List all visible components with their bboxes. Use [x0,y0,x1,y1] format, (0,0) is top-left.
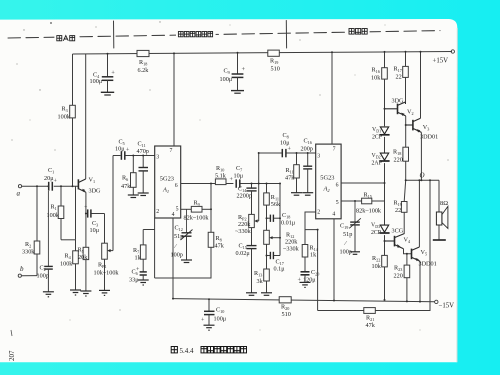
wire: junction link C8 wire to main wire to RP2 wiper [258,153,260,221]
svg-text:100p: 100p [37,273,49,280]
svg-text:82k~100k: 82k~100k [356,208,382,215]
svg-text:+: + [111,70,115,77]
svg-text:0.1μ: 0.1μ [274,266,286,273]
svg-text:100k: 100k [58,114,71,121]
svg-text:20k: 20k [78,254,88,261]
wire: A1 pin7 supply from rail [173,53,175,146]
wire: V2 collector up to R17 [404,102,406,104]
svg-text:3DD01: 3DD01 [420,134,438,141]
resistor R19b 22 below O [394,180,408,234]
label V3 3DD01 [420,124,438,141]
transistor V3 3DD01 power [406,118,422,132]
svg-text:1k: 1k [135,255,142,262]
resistor R6 47k to ground [121,156,136,195]
wire: A2 pin2 wire [305,212,316,245]
svg-text:6.2k: 6.2k [138,67,150,74]
svg-text:+15V: +15V [433,58,449,65]
ground under C6 [138,280,149,285]
wire: V1 collector to rail [85,54,87,179]
ground under C10 [204,325,215,330]
label V2 3DG [392,98,414,116]
wire: A1 pin4 down to -15V bus [172,218,174,299]
resistor R5 20k emitter to ground [78,247,89,291]
svg-text:3: 3 [156,155,159,161]
svg-text:51p: 51p [174,233,183,240]
wire: V5 bottom to -15V bus [419,261,421,301]
svg-text:2: 2 [156,209,159,215]
transistor V2 3DG driver [385,102,406,116]
wire: V5 top to O node [418,180,420,247]
wire: bias chain column segments [384,52,386,300]
svg-text:22: 22 [395,207,401,214]
svg-text:100μ: 100μ [214,316,227,323]
resistor R4 100k base column to ground [60,240,78,290]
svg-text:33μ: 33μ [129,277,139,284]
wire: V3 emitter to O node [420,132,422,180]
svg-text:7: 7 [170,148,173,154]
terminal b [18,265,37,277]
svg-text:510: 510 [282,311,291,318]
ground under R11b [291,193,302,196]
capacitor C6 33u [129,267,147,284]
wire: V1 base column [75,186,77,240]
svg-text:6: 6 [175,183,178,189]
capacitor C1 20u coupling [44,167,58,191]
resistor R14 1k [302,245,319,272]
wire: V3 collector to rail [420,52,422,119]
svg-text:VD1: VD1 [372,127,381,133]
svg-text:220: 220 [394,157,403,164]
svg-text:7: 7 [333,146,336,152]
label V1 3DG [89,177,102,195]
svg-text:56k: 56k [271,201,281,208]
svg-text:100p: 100p [171,252,183,259]
speaker 8 ohm [436,180,448,239]
svg-text:207: 207 [8,350,16,361]
ground under R5 [80,291,91,296]
svg-text:100k: 100k [47,212,60,219]
svg-text:3DG: 3DG [89,188,102,195]
svg-text:5.1k: 5.1k [215,172,227,179]
wire: V1 emitter column [85,192,87,247]
transistor V4 3CG driver [385,234,405,249]
ground under R6 [128,195,139,198]
ground under C20 [300,282,311,287]
capacitor C2 100p [37,191,53,292]
svg-text:4: 4 [172,212,175,218]
wire: A2 pin5 wire [341,200,362,202]
resistor R13 3k to ground [254,256,269,293]
svg-text:O: O [420,172,425,180]
label 音调控制电路 (tone control circuit) [178,32,212,37]
svg-text:51p: 51p [343,231,352,238]
svg-text:10k~100k: 10k~100k [94,270,120,277]
wire: C8 input wire of A2 [259,152,282,154]
label 音调控制电路 white backing [176,29,216,39]
ground under R13 [261,293,272,296]
svg-text:220k: 220k [285,239,298,246]
svg-text:b: b [20,265,24,273]
svg-text:100k: 100k [60,261,73,268]
svg-text:5: 5 [336,200,339,206]
resistor R22 10k lower chain [372,255,388,270]
svg-text:220: 220 [394,273,403,280]
svg-text:2CP: 2CP [371,230,381,236]
ground under speaker [433,239,446,241]
scan speckle noise [11,21,448,330]
svg-text:10μ: 10μ [280,140,290,147]
svg-text:220k: 220k [238,221,251,228]
svg-text:6: 6 [336,183,339,189]
svg-text:47k: 47k [366,322,376,329]
wire: A2 pin6 output [341,182,384,184]
resistor R8 47k [208,209,224,249]
svg-text:5G23: 5G23 [320,175,334,182]
svg-text:−15V: −15V [439,303,455,310]
capacitor C15 0.02u [236,228,257,293]
ground under C11 [138,193,149,196]
svg-text:5G23: 5G23 [160,176,174,183]
svg-text:VD2: VD2 [372,153,381,159]
diode VD3 2CP [371,223,390,237]
ground bar under C19 [350,252,360,255]
wire: V4 emitter to V5 base [404,249,412,254]
ground under C16 [302,193,313,196]
resistor R10 5.1k series [215,165,233,185]
svg-text:2200p: 2200p [237,193,252,200]
svg-text:3CG: 3CG [392,228,404,235]
+15V supply terminal [433,50,455,65]
svg-text:+: + [242,66,246,73]
label 输入级 white backing [54,33,77,43]
svg-text:10k: 10k [371,75,381,82]
svg-text:22: 22 [396,74,402,81]
capacitor C14 2200p branch [237,184,257,215]
ground under C12 [181,260,192,263]
op-amp A2 5G23 [316,144,341,219]
capacitor C12 51p~100p variable [171,209,193,259]
svg-text:47k: 47k [215,243,225,250]
diode VD2 2AP [372,153,390,167]
page right edge shade [456,28,458,362]
node O output [406,172,439,181]
svg-text:3: 3 [317,154,320,160]
diode VD1 2CP [372,127,390,141]
resistor R7 1k [133,230,146,272]
svg-text:0.02μ: 0.02μ [236,250,251,257]
wire: RP1 wiper up to C5 [112,156,114,251]
svg-text:47k: 47k [285,175,295,182]
ground under R4 [70,290,81,295]
potentiometer RP1 10k~100k [94,214,120,291]
wire: treble network vertical link [279,184,281,256]
capacitor C18 0.01u branch [267,212,296,227]
capacitor C3 10u emitter coupling [84,205,105,234]
svg-text:VD3: VD3 [371,223,380,229]
wire: A2 pin7 supply from rail [331,52,333,144]
svg-text:5: 5 [176,207,179,213]
label 输出级 (output stage) [349,29,367,35]
resistor R21 47k feedback [364,308,376,329]
svg-text:~330k: ~330k [283,246,300,253]
svg-text:100μ: 100μ [90,78,103,85]
wire: input a to V1 base [22,185,79,187]
capacitor C9 100u rail filter [220,53,246,93]
resistor R18 6.2k on top rail [137,50,149,74]
svg-text:~330k: ~330k [235,228,252,235]
stage boundary dashed line [8,31,440,38]
potentiometer R12 220k~330k [264,230,300,252]
resistor R16 10k [371,67,387,82]
wire: C5 to A1 pin 3 [125,155,154,157]
svg-text:0.01μ: 0.01μ [281,220,296,227]
resistor R3 100k bias from rail [58,54,76,186]
figure caption 图5.4.4 扩音机电原理图 [171,347,246,355]
ground under C2 [43,292,54,297]
label V4 3CG [392,228,411,244]
svg-text:2: 2 [317,210,320,216]
wire: A1 pin5 wire [181,208,192,210]
svg-text:510: 510 [271,66,280,73]
svg-text:8Ω: 8Ω [440,200,448,207]
wire: A1 pin6 output wire [181,183,216,185]
label V5 3DD01 [419,249,437,268]
capacitor C4 100u rail filter [90,54,116,95]
capacitor C17 0.1u branch [267,244,286,272]
capacitor C19 51p~100p variable [340,201,361,256]
svg-text:330k: 330k [22,249,35,256]
capacitor C7 10u series [230,165,281,188]
svg-text:470p: 470p [137,148,149,155]
svg-text:10μ: 10μ [90,227,100,234]
op-amp A1 5G23 [155,146,181,218]
resistor R9 82k~100k feedback [184,184,212,222]
resistor R18b 220 [393,147,409,180]
ground under C15 [246,293,257,296]
resistor R11 56k branch [264,184,281,231]
wire: +15V top rail [73,52,453,55]
capacitor C5 10u into A1 [113,139,130,160]
svg-text:5.4.4: 5.4.4 [180,347,195,355]
resistor R17 22 from rail [394,52,409,104]
svg-text:3k: 3k [257,278,264,285]
wire: A1 pin2 to R8 bottom (U link) [155,247,211,278]
capacitor C10 100u on -15V bus [201,299,227,325]
transistor V1 3DG [78,179,86,192]
svg-text:3DG: 3DG [392,98,405,105]
-15V supply terminal [435,300,455,309]
resistor R23 220 [394,254,410,302]
resistor R20 510 on -15V bus [279,297,291,318]
resistor R1 100k [47,186,76,240]
label 输出级 white backing [346,26,369,36]
wire: A2 pin4 down to -15V bus [333,219,335,301]
svg-text:1k: 1k [310,252,317,259]
terminal a [17,185,22,198]
ground under RP1 [99,290,110,295]
svg-text:2AP: 2AP [372,161,382,167]
svg-text:100μ: 100μ [220,76,233,83]
transistor V5 3DD01 power [412,247,421,261]
svg-text:82k~100k: 82k~100k [184,215,210,222]
label 输入级 (input stage) [57,36,75,41]
svg-text:a: a [17,190,21,198]
svg-text:47k: 47k [121,183,131,190]
capacitor C16 200p to ground [301,138,313,193]
svg-text:10μ: 10μ [234,173,244,180]
wire: A2 pin2 jog to feedback line [305,230,318,311]
resistor R19 510 on top rail [268,50,280,72]
svg-text:200p: 200p [301,146,313,153]
svg-text:4: 4 [332,211,335,217]
svg-text:10k: 10k [372,263,382,270]
resistor R11b 47k to ground [285,153,299,193]
svg-text:10μ: 10μ [115,146,125,153]
wire: A1 pin2 column [143,218,154,278]
capacitor C8 10u coupling [280,132,316,157]
resistor R2 330k input to ground [22,186,40,275]
wire: -15V bottom bus [173,299,435,302]
svg-text:3DD01: 3DD01 [419,261,437,268]
svg-text:2CP: 2CP [372,135,382,141]
capacitor C11 470p to ground [137,141,149,193]
wire: V2 emitter column [405,116,407,147]
stage divider tick 2 [285,21,287,49]
wire: feedback line R21 [318,180,430,310]
resistor R15 82k~100k feedback [356,183,385,215]
stage divider tick 1 [113,21,115,48]
capacitor C20 120u [298,269,320,284]
potentiometer RP2 220k~330k [235,214,259,235]
page number 207 vertical [8,330,16,361]
